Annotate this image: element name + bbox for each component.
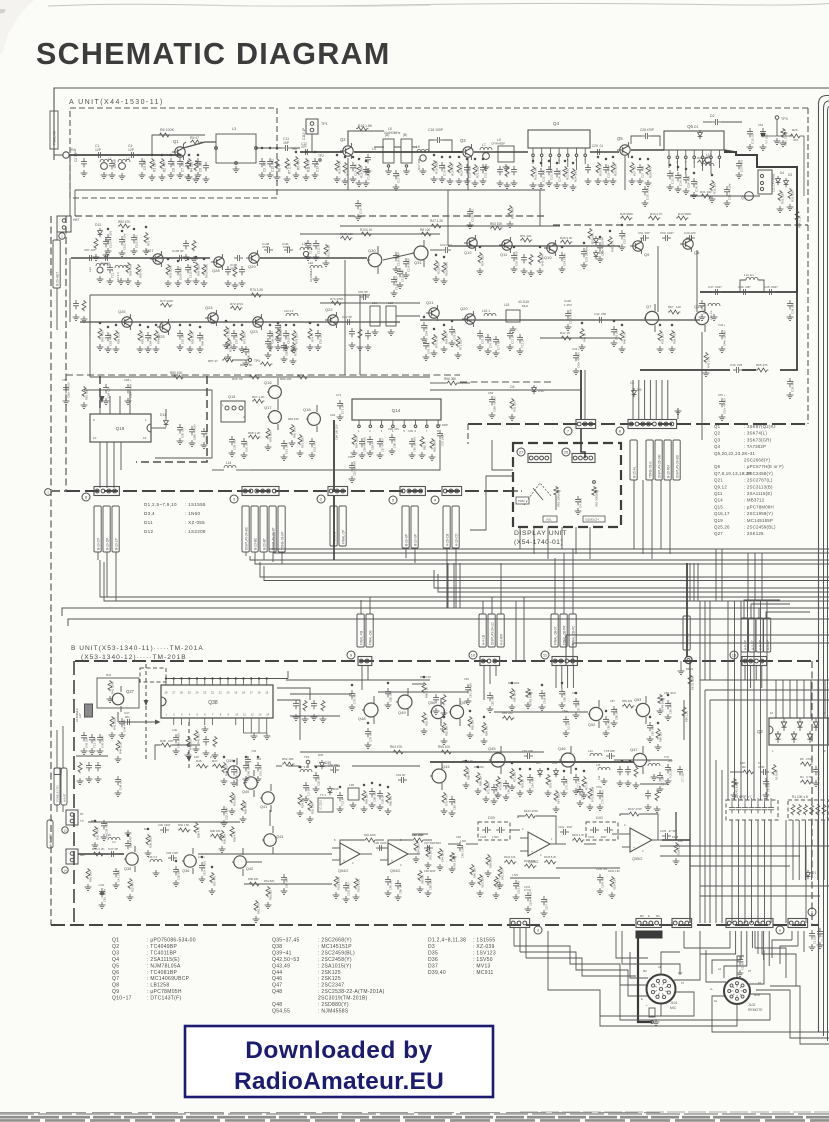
resistor R58 1.2K — [248, 435, 260, 439]
svg-text:10.695MHz: 10.695MHz — [75, 708, 79, 722]
svg-text:Q54,55: Q54,55 — [272, 1008, 290, 1014]
svg-text:R4 100: R4 100 — [190, 161, 194, 172]
svg-text:R103 1K: R103 1K — [437, 263, 441, 274]
capacitor C107b .001 — [541, 896, 547, 905]
capacitor C81b 100 16V — [465, 684, 471, 693]
capacitor C81 .022 — [201, 428, 207, 437]
svg-text:C98 330P: C98 330P — [424, 869, 436, 873]
resistor R71b 220 — [510, 768, 514, 779]
svg-text:C120 .022: C120 .022 — [471, 209, 475, 222]
potentiometer VR1 50K(B) — [592, 486, 599, 496]
capacitor in D39 — [482, 827, 491, 833]
wire row2b — [448, 245, 620, 247]
opamp Q54/2 a — [340, 843, 360, 865]
svg-text:Q41: Q41 — [260, 805, 267, 809]
capacitor C94 .001 — [145, 332, 151, 341]
capacitor C38c 470P — [125, 840, 131, 849]
svg-text:SCHEMATIC DIAGRAM: SCHEMATIC DIAGRAM — [36, 37, 390, 71]
resistor R57b 12K — [668, 310, 680, 314]
bundle display-b wires — [447, 563, 449, 608]
connector 13 on B top — [742, 657, 767, 666]
transistor Q40 — [245, 777, 257, 789]
resistor R95b 10K — [426, 846, 430, 857]
capacitor C2 33P — [81, 158, 87, 167]
svg-text:R61 22K: R61 22K — [301, 437, 305, 448]
capacitor C15 .001 — [363, 166, 369, 175]
svg-text:DL: DL — [714, 999, 718, 1003]
resistor R77c 47 — [582, 776, 586, 787]
thick wire final-b — [333, 496, 335, 546]
transistor Q25 — [157, 319, 170, 335]
svg-text:Q1: Q1 — [714, 424, 721, 429]
resistor R106 100K — [442, 262, 446, 273]
svg-text:R49 100: R49 100 — [189, 739, 193, 750]
svg-text:C57+ 47 35V: C57+ 47 35V — [723, 398, 727, 414]
svg-text:R14 10: R14 10 — [346, 166, 350, 176]
ic Q6 — [664, 131, 724, 150]
transistor Q52 — [589, 707, 602, 720]
capacitor C38 .02 — [691, 178, 697, 187]
svg-text:D1: D1 — [812, 871, 816, 875]
svg-text:R55 47K: R55 47K — [756, 363, 768, 367]
resistor R96c 15K — [470, 864, 474, 875]
resistor R74 77 — [308, 328, 312, 339]
inductor L24 — [300, 247, 312, 250]
filler B center a — [293, 700, 299, 709]
strip A-8-9T — [61, 768, 67, 805]
vertical long left — [69, 161, 71, 216]
svg-text:R104 1K: R104 1K — [360, 228, 373, 232]
svg-text:R6 47: R6 47 — [278, 163, 282, 172]
svg-text:R68 4.7K: R68 4.7K — [467, 769, 471, 780]
svg-text:L36 3.3: L36 3.3 — [148, 855, 157, 859]
svg-text:R9 47K: R9 47K — [297, 158, 301, 170]
svg-text:C2 33P: C2 33P — [74, 151, 78, 162]
capacitor C86c 20AP — [611, 706, 617, 715]
svg-text:3.3 10V: 3.3 10V — [567, 721, 571, 730]
capacitor C85b .001 — [603, 716, 609, 725]
connector J102 REMOTE — [724, 978, 750, 1004]
transistor Q45 — [491, 753, 505, 767]
capacitor in D40 — [590, 827, 599, 833]
thick wire final-db — [686, 563, 688, 657]
filter L9 CFW455F — [498, 146, 514, 162]
wire audio long2 — [244, 883, 332, 885]
svg-text:D2: D2 — [710, 114, 715, 118]
svg-text:C116 .001: C116 .001 — [401, 269, 405, 282]
svg-text:L28: L28 — [308, 261, 313, 265]
strip 5a — [402, 506, 409, 548]
resistor R81b 1K — [422, 712, 426, 723]
routed wires right nest — [700, 679, 829, 681]
wires strips11 up — [554, 558, 556, 614]
svg-text:D36: D36 — [333, 787, 339, 791]
ic Q38 top pin stubs — [165, 679, 167, 686]
capacitor C61b .1 35V — [99, 888, 105, 897]
resistor R72 4704 — [230, 306, 242, 310]
resistor R55 47K — [756, 368, 768, 372]
trimmer C3 5P — [109, 160, 115, 169]
svg-text:C43 +: C43 + — [572, 347, 580, 351]
svg-text:: 2SC2458(Y): : 2SC2458(Y) — [318, 957, 352, 963]
svg-text:PWR: PWR — [518, 499, 525, 503]
svg-text:+: + — [633, 846, 635, 850]
resistor R103 1K — [434, 260, 438, 271]
svg-text:C64: C64 — [330, 413, 336, 417]
svg-text:Q44: Q44 — [272, 970, 282, 976]
svg-text:C22 .022: C22 .022 — [542, 169, 546, 182]
svg-text:47K: 47K — [793, 138, 798, 142]
resistor R79b 33 — [588, 788, 592, 799]
capacitor C100 .01 — [283, 330, 289, 339]
svg-text:C59: C59 — [488, 391, 494, 395]
variable resistor VR2b 10K — [450, 852, 457, 862]
resistor R76 22K — [240, 330, 244, 341]
resistor R20 470 — [457, 162, 461, 173]
wires strips10 up — [482, 601, 484, 614]
svg-text:C17 3P: C17 3P — [397, 173, 401, 183]
capacitor C36 47 10V — [724, 186, 730, 195]
crystal L47 box — [85, 704, 93, 717]
downloaded-by box — [185, 1026, 493, 1097]
resistor R16 1.8K wire — [348, 131, 384, 145]
A unit bottom dashed bus right — [468, 423, 808, 425]
wire mid step1 — [250, 440, 440, 470]
resistor R42 2.2K — [704, 352, 708, 363]
wire row3 — [420, 319, 700, 321]
resistor R30 15K — [697, 160, 709, 164]
svg-text:A UNIT(X44-1530-11): A UNIT(X44-1530-11) — [69, 99, 164, 106]
resistor R104b 10K — [504, 860, 516, 864]
strip FINAL-2B-9T — [551, 614, 558, 647]
svg-text:C102 .001: C102 .001 — [135, 235, 139, 248]
svg-text:C37 .001: C37 .001 — [740, 159, 744, 172]
svg-text:SQUELCH: SQUELCH — [585, 518, 599, 522]
transistor Q8 — [680, 236, 693, 252]
connector g on B bus — [788, 919, 808, 928]
connector 8 on A bus — [94, 487, 119, 496]
filler Bq38 under — [203, 736, 209, 745]
capacitor C80 47 16V — [189, 426, 195, 435]
svg-text:R70 56: R70 56 — [521, 779, 525, 788]
svg-text:470P: 470P — [172, 851, 178, 855]
svg-text:R94 180K: R94 180K — [418, 843, 421, 854]
svg-text:8M: 8M — [643, 969, 647, 973]
svg-text:D37: D37 — [428, 963, 438, 969]
svg-text:: LB1258: : LB1258 — [147, 983, 169, 989]
svg-text:C66 .001: C66 .001 — [393, 437, 397, 448]
resistor R89b 2.2K wire — [683, 700, 685, 740]
svg-text:A-10-CB: A-10-CB — [446, 534, 450, 546]
resistor R28 470 — [646, 164, 650, 175]
svg-text:L7: L7 — [482, 143, 486, 147]
svg-text:Q6: Q6 — [112, 970, 119, 976]
resistor R4b 4.7K — [800, 780, 812, 784]
svg-text:R35 2.2K: R35 2.2K — [92, 847, 105, 851]
ic Q38 bottom pin stubs — [173, 718, 175, 725]
svg-text:Q1: Q1 — [173, 139, 179, 144]
capacitor C65b 18P — [524, 753, 533, 759]
inductor L28 — [310, 265, 322, 268]
svg-text:R87 47: R87 47 — [208, 359, 218, 363]
capacitor C101b 1 50V — [513, 880, 519, 889]
capacitor C87b .0047 — [573, 698, 579, 707]
svg-text:Q39~41: Q39~41 — [272, 950, 292, 956]
capacitor C46 .33P — [740, 289, 749, 295]
capacitor C44b 470P — [119, 718, 125, 727]
capacitor C72 2P — [507, 330, 513, 339]
svg-text:R66 390: R66 390 — [389, 795, 393, 806]
svg-text:9T: 9T — [748, 969, 751, 973]
svg-text:Q43: Q43 — [276, 835, 283, 839]
svg-text:C81 100 16V: C81 100 16V — [469, 683, 473, 698]
transistor Q31 — [414, 246, 428, 260]
svg-text:+C61: +C61 — [98, 883, 105, 887]
svg-text:C6: C6 — [510, 385, 514, 389]
capacitor C84c 3.3 10V — [563, 716, 569, 725]
connector HET — [57, 216, 71, 232]
svg-text:2SC3019(TM-201B): 2SC3019(TM-201B) — [318, 996, 368, 1002]
capacitor C86c .0047 — [243, 346, 249, 355]
svg-text:R61 82K: R61 82K — [269, 889, 273, 900]
resistor R54b 22K — [478, 252, 482, 263]
wire routed d — [514, 946, 646, 985]
svg-text:: MC145151P: : MC145151P — [318, 944, 352, 950]
svg-text:: μPD75086-534-00: : μPD75086-534-00 — [147, 938, 196, 944]
capacitor C37 .001 — [736, 160, 742, 169]
capacitor C7 .001 — [177, 158, 183, 167]
midband wire 5d — [438, 574, 829, 592]
transistor Q48 — [364, 703, 378, 717]
thick vertical b mid — [689, 661, 691, 923]
verticals bundle into C4b — [727, 660, 729, 800]
svg-text:R1 22K: R1 22K — [153, 160, 157, 172]
transistor Q3 — [460, 144, 473, 160]
resistor R53 10K — [490, 226, 502, 230]
capacitor C18 100P — [429, 140, 434, 152]
svg-text:FINAL-9A: FINAL-9A — [53, 130, 57, 145]
svg-text:B-10-RM: B-10-RM — [667, 465, 671, 478]
connector 9 on B top — [358, 657, 372, 666]
outer dashed border left — [50, 216, 52, 925]
resistor R9 47K — [294, 156, 298, 167]
svg-text:C64 100 25V: C64 100 25V — [335, 424, 339, 440]
svg-text:R96 6.8K: R96 6.8K — [201, 334, 205, 346]
resistor R94b 180K — [438, 848, 442, 859]
svg-text:Q7: Q7 — [646, 304, 652, 309]
transistor Q28 — [211, 254, 224, 270]
A unit dashed step — [512, 490, 522, 492]
trimmer TC6 20P — [665, 764, 671, 773]
resistor R50b 470K — [241, 800, 245, 811]
transistor Q20 — [462, 311, 475, 327]
capacitor C54 .022 — [683, 174, 689, 183]
resistor R42 220K — [110, 716, 114, 727]
capacitor C63 47 10V — [597, 242, 603, 251]
resistor R15 270K — [335, 160, 339, 171]
capacitor C118 1 25V — [565, 310, 571, 319]
svg-text:C55 18P: C55 18P — [317, 775, 321, 786]
svg-text:R46: R46 — [196, 759, 202, 763]
capacitor C63b 47u — [367, 436, 373, 445]
resistor R36 470K — [93, 826, 97, 837]
svg-text:VR3 50K: VR3 50K — [529, 693, 533, 704]
capacitor C59c 10 — [377, 790, 383, 799]
strip DISPLAY-24-BC — [242, 506, 249, 552]
midband wire 5a — [260, 562, 829, 577]
svg-text:270K: 270K — [806, 757, 813, 761]
svg-text:C82+ 47 10V: C82+ 47 10V — [67, 382, 71, 398]
wire q55 fb — [510, 877, 560, 879]
row2b verticals — [447, 190, 449, 246]
svg-text:R45 100: R45 100 — [197, 733, 201, 744]
svg-text:C110 .001: C110 .001 — [189, 265, 193, 278]
svg-text:C57 +: C57 + — [718, 393, 726, 397]
svg-text:R107 270K: R107 270K — [628, 807, 642, 811]
ic Q14 — [352, 399, 441, 420]
svg-text:: NJM4558S: : NJM4558S — [318, 1008, 349, 1014]
svg-text:C68 .001: C68 .001 — [453, 799, 457, 810]
svg-text:TONE-31-BT: TONE-31-BT — [281, 531, 285, 550]
resistor R1 22K — [150, 158, 154, 169]
svg-text:L20 3.3: L20 3.3 — [284, 309, 294, 313]
resistor R56b 4.7K — [194, 822, 198, 833]
svg-text:VR1 50K(B): VR1 50K(B) — [595, 492, 599, 507]
svg-text:R91 220K: R91 220K — [364, 833, 376, 837]
svg-text:VR1 10K: VR1 10K — [784, 134, 788, 146]
capacitor C49 10 16V — [173, 734, 179, 743]
display unit dashed box — [513, 443, 621, 527]
wire squelch row — [378, 691, 468, 693]
inductor L43 — [590, 753, 602, 756]
svg-text:10K: 10K — [194, 755, 199, 759]
svg-text:Q28: Q28 — [212, 268, 220, 273]
svg-text:C62 3P: C62 3P — [396, 773, 405, 777]
svg-text:C49 22P: C49 22P — [684, 231, 696, 235]
wire mid v2 — [446, 563, 448, 608]
A unit IF dashed divider — [553, 224, 808, 226]
svg-text:R60 15K: R60 15K — [89, 871, 93, 882]
svg-text:Q15: Q15 — [714, 504, 723, 509]
diode D1 — [698, 130, 703, 139]
resistor R58 470K — [670, 330, 674, 341]
inductor L2 — [118, 159, 130, 162]
svg-text:R105 47K: R105 47K — [524, 859, 536, 863]
svg-text:VR2 10K(X): VR2 10K(X) — [557, 492, 561, 507]
diode D4 — [776, 176, 781, 185]
svg-text:C52 1 25V: C52 1 25V — [225, 807, 229, 820]
svg-text:R59 4.7K: R59 4.7K — [233, 831, 237, 842]
resistor R39 220K — [146, 834, 150, 845]
svg-text:C43+ 47 10V: C43+ 47 10V — [577, 352, 581, 368]
capacitor C14 .001 — [350, 162, 356, 171]
svg-text:R1 10K x 8: R1 10K x 8 — [792, 795, 808, 799]
svg-text:Q5: Q5 — [617, 136, 623, 141]
resistor R94c 180K — [414, 840, 418, 851]
resistor R41 1K — [580, 328, 584, 339]
svg-text:R40 1.2K: R40 1.2K — [623, 332, 627, 344]
svg-text:DISPLAY-26-SM: DISPLAY-26-SM — [658, 454, 662, 478]
svg-text:C78 22P: C78 22P — [453, 329, 457, 340]
resistor R21 100 — [473, 164, 477, 175]
svg-text:C44 470P: C44 470P — [123, 719, 127, 732]
svg-text:C51: C51 — [252, 749, 257, 753]
capacitor C52b 1.25V — [221, 806, 227, 815]
capacitor C21 .022 — [480, 164, 486, 173]
svg-text:C69: C69 — [408, 429, 413, 433]
svg-text:C70 .001: C70 .001 — [565, 779, 569, 790]
wire Q1 to L3 — [183, 142, 216, 148]
svg-text:J102: J102 — [748, 1003, 755, 1007]
svg-text:A-9-RM: A-9-RM — [500, 634, 504, 645]
resistor R101c 220K — [494, 876, 498, 887]
capacitor C116 .001 — [397, 268, 403, 277]
capacitor C105b .47 35V — [662, 833, 671, 839]
svg-text:B UNIT(X53-1340-11)·····TM-201: B UNIT(X53-1340-11)·····TM-201A — [71, 645, 204, 652]
svg-text:C1 .001: C1 .001 — [741, 960, 745, 970]
strip FINAL-B — [330, 506, 337, 546]
resistor R70b 56 — [518, 774, 522, 785]
resistor R74b 1.5K — [554, 790, 558, 801]
svg-text:C41 1 35V: C41 1 35V — [117, 869, 121, 882]
svg-text:C38 .001: C38 .001 — [791, 302, 795, 314]
svg-text:R5 100K: R5 100K — [160, 128, 175, 132]
svg-text:: 2SK125: : 2SK125 — [318, 970, 341, 976]
capacitor C108 470P — [264, 247, 273, 253]
svg-text:470P: 470P — [758, 765, 765, 769]
strip A-8-CP — [764, 618, 771, 652]
capacitor C113 .01 — [313, 240, 319, 249]
capacitor C70 100P — [437, 430, 443, 439]
svg-text:15: 15 — [265, 691, 268, 695]
capacitor C66b 15P — [503, 780, 509, 789]
capacitor C54b 1 25s — [559, 252, 565, 261]
svg-text:R62 1K: R62 1K — [423, 441, 427, 450]
svg-text:VOL: VOL — [546, 518, 552, 522]
svg-text:R92 100K: R92 100K — [169, 265, 173, 278]
B unit dashed border right — [811, 661, 813, 925]
svg-text:B-15-AL: B-15-AL — [633, 466, 637, 478]
resistor R38 100 — [658, 330, 662, 341]
capacitor C50 .068 — [231, 766, 237, 775]
wire audio long — [88, 821, 240, 823]
diode D9 on wire — [632, 388, 637, 397]
svg-text:15P: 15P — [283, 141, 290, 145]
resistor R54 3.3K — [795, 210, 799, 221]
connector 6 on A bus right — [628, 420, 677, 429]
svg-text:R96 2.2K: R96 2.2K — [117, 332, 121, 344]
capacitor C30 .01 — [747, 128, 753, 137]
svg-text:R79 33 1/2W: R79 33 1/2W — [591, 786, 595, 802]
capacitor C56c 18P — [330, 767, 339, 773]
svg-text:.0047: .0047 — [566, 825, 573, 829]
capacitor C42 .056 — [596, 317, 605, 323]
resistor R49 15K — [538, 252, 542, 263]
svg-text:C26 470P: C26 470P — [607, 165, 611, 178]
test point TP4 — [248, 358, 251, 361]
wires conn g routed — [772, 940, 792, 958]
svg-text:R22 1.8K: R22 1.8K — [534, 167, 538, 180]
svg-text:C96 .56P: C96 .56P — [389, 879, 393, 890]
svg-text:A-11-MET: A-11-MET — [49, 833, 53, 846]
svg-text:C42 .056: C42 .056 — [594, 312, 607, 316]
svg-text:Q5,20,22,23,28~31: Q5,20,22,23,28~31 — [714, 451, 755, 456]
strip B-20-BT — [260, 506, 267, 552]
wire row3 r74 — [320, 302, 420, 304]
svg-text:C4 .001: C4 .001 — [579, 498, 583, 508]
svg-text:R19 47K: R19 47K — [451, 164, 455, 176]
svg-text:R86 100K: R86 100K — [508, 681, 520, 685]
